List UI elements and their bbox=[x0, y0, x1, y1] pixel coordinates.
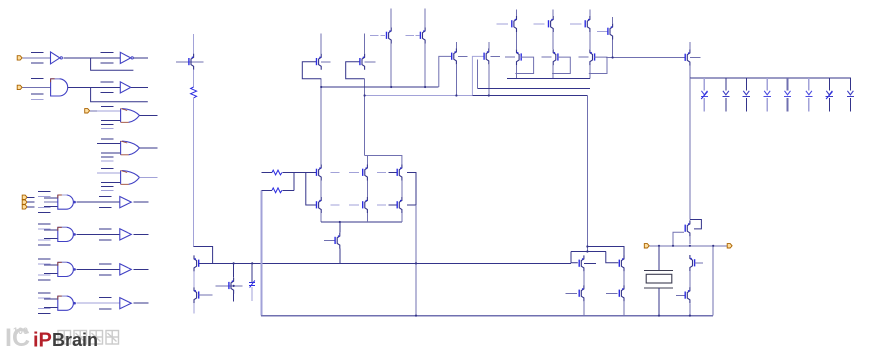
transistor Q19 bbox=[549, 16, 554, 32]
buffer B1 bbox=[120, 197, 132, 208]
wire Q13 source down bbox=[364, 79, 366, 156]
wire diode loop Q24 bbox=[589, 57, 607, 73]
wire diode loop Q22 bbox=[515, 57, 533, 73]
wire drv lower right drop bbox=[606, 252, 619, 263]
wire diff gate tie bbox=[306, 173, 316, 206]
bus stub bbox=[99, 207, 112, 209]
junction bbox=[586, 245, 588, 247]
junction bbox=[233, 262, 235, 264]
wire P3 to OR gate bbox=[90, 110, 97, 112]
wire Q18 drain bbox=[516, 10, 518, 17]
transistor Q4 gate lead bbox=[216, 285, 243, 287]
wire NAND4 to buffer bbox=[77, 302, 120, 304]
wire NAND4 input B bbox=[44, 307, 58, 309]
wire OR3 input A bbox=[97, 172, 121, 174]
bus stub bbox=[101, 92, 114, 94]
wire NAND3 input B bbox=[44, 273, 58, 275]
junction bbox=[233, 285, 235, 287]
wire node vertical bbox=[293, 173, 295, 191]
wire diode loop Q23 bbox=[552, 57, 570, 73]
buffer B2 bbox=[120, 229, 132, 240]
bus stub bbox=[38, 223, 51, 225]
junction bbox=[339, 221, 341, 223]
wire long gate net bbox=[199, 262, 571, 264]
transistor Q27 gate dash bbox=[566, 292, 578, 294]
transistor Q18 bbox=[512, 16, 517, 32]
bus stub bbox=[99, 297, 112, 299]
transistor Q15 bbox=[420, 28, 425, 44]
junction bbox=[712, 245, 714, 247]
wire pin lead bbox=[27, 206, 35, 208]
wire bias C down bbox=[586, 96, 588, 252]
wire Q21 drain bbox=[612, 17, 614, 24]
transistor Q31 bbox=[690, 255, 695, 271]
transistor Q20 bbox=[585, 16, 590, 32]
junction bbox=[586, 250, 588, 252]
buffer U2 bbox=[120, 52, 133, 63]
wire OR1 output bbox=[139, 114, 157, 116]
wire Q7-Q8 bbox=[366, 181, 368, 198]
wire buffer B1 output bbox=[133, 201, 148, 203]
junction bbox=[672, 245, 674, 247]
wire Q2 source bbox=[193, 271, 195, 287]
capacitor load CL3 bbox=[743, 78, 750, 112]
wire to R2 bbox=[262, 189, 273, 191]
inverter U1 bbox=[51, 52, 63, 64]
bus stub bbox=[38, 313, 51, 315]
bus stub bbox=[99, 228, 112, 230]
bus stub bbox=[101, 52, 114, 54]
gate dash bbox=[381, 35, 386, 37]
transistor Q3 gate lead bbox=[199, 294, 213, 296]
transistor Q1 bbox=[189, 54, 194, 70]
watermark iP-Brain logo bbox=[5, 324, 119, 352]
capacitor C1 bbox=[249, 280, 255, 287]
transistor Q7 bbox=[363, 165, 368, 181]
wire Q15 drain bbox=[424, 9, 426, 28]
NAND gate N1 bbox=[58, 195, 76, 209]
wire Q17 source bbox=[488, 64, 490, 95]
bus stub bbox=[38, 196, 51, 198]
wire bias D bbox=[478, 88, 590, 90]
transistor Q5 bbox=[317, 165, 322, 181]
bus stub bbox=[38, 297, 51, 299]
wire NAND1 input M bbox=[44, 201, 58, 203]
bus stub bbox=[99, 239, 112, 241]
wire diff source rail bbox=[321, 221, 402, 223]
wire pin lead bbox=[27, 196, 35, 198]
transistor Q29 gate dash bbox=[606, 292, 618, 294]
transistor Q11 (tail) bbox=[335, 233, 340, 249]
transistor Q3 bbox=[194, 287, 199, 303]
wire Q30 to node bbox=[689, 236, 691, 243]
wire drv lower loop bbox=[571, 251, 606, 253]
wire Q29 source bbox=[623, 301, 625, 315]
wire Q26 source bbox=[583, 271, 585, 285]
gate dash bbox=[570, 23, 581, 25]
wire Q17 drain bbox=[488, 42, 490, 49]
transistor Q22 bbox=[517, 49, 522, 65]
capacitor load CL1 bbox=[701, 78, 708, 112]
crystal Y1 body bbox=[646, 274, 672, 283]
junction bbox=[455, 94, 457, 96]
junction bbox=[658, 245, 660, 247]
wire Q20 source bbox=[589, 32, 591, 49]
bus stub bbox=[38, 207, 51, 209]
wire Q16 gate lead right bbox=[458, 55, 468, 57]
wire NAND1 input A bbox=[44, 197, 58, 199]
wire cap bus bbox=[690, 77, 851, 79]
capacitor load CL4 bbox=[764, 78, 771, 112]
capacitor load CL2 bbox=[722, 78, 729, 112]
wire buffer B3 output bbox=[133, 268, 148, 270]
transistor Q29 bbox=[619, 285, 624, 301]
transistor Q9 gate lead bbox=[389, 172, 397, 174]
wire OR2 input A bbox=[97, 142, 121, 144]
wire Q25 right lead bbox=[690, 57, 701, 59]
wire NAND3 input A bbox=[44, 264, 58, 266]
wire OR1 input A bbox=[97, 110, 121, 112]
wire NAND2 input B bbox=[44, 238, 58, 240]
wire OR3 input B bbox=[101, 181, 121, 183]
node XTAL net bbox=[649, 245, 727, 247]
svg-text:iP: iP bbox=[33, 330, 52, 352]
wire Q23 source bbox=[552, 65, 554, 78]
gate dash bbox=[542, 56, 552, 58]
wire buffer B2 output bbox=[133, 233, 148, 235]
pin XI bbox=[644, 244, 649, 248]
bus stub bbox=[101, 127, 114, 129]
wire vref vertical bbox=[261, 190, 263, 315]
gate dash bbox=[377, 204, 386, 206]
wire XO branch down bbox=[712, 246, 714, 316]
wire NAND4 input A bbox=[44, 298, 58, 300]
bus stub bbox=[38, 292, 51, 294]
wire Q9 drain jog bbox=[365, 156, 402, 165]
capacitor load CL5 bbox=[784, 78, 791, 112]
svg-text:100: 100 bbox=[13, 326, 28, 336]
transistor Q30 bbox=[685, 220, 690, 236]
transistor Q21 bbox=[608, 24, 613, 40]
wire Q21 source bbox=[612, 40, 614, 58]
crystal Y1 bottom plate bbox=[644, 287, 673, 289]
bus stub bbox=[101, 186, 114, 188]
junction bbox=[689, 245, 691, 247]
junction bbox=[390, 86, 392, 88]
wire Q7 drain bbox=[366, 156, 368, 165]
transistor Q17 bbox=[484, 48, 489, 64]
wire tail source bbox=[339, 249, 341, 264]
wire Q1 to R3 bbox=[193, 70, 195, 87]
wire Q20 drain bbox=[589, 10, 591, 17]
wire NAND1 to buffer bbox=[77, 201, 120, 203]
wire bias B bbox=[365, 95, 473, 97]
bus stub bbox=[38, 212, 51, 214]
AND gate U3 bbox=[51, 79, 68, 96]
wire loop Q2 bbox=[194, 247, 213, 264]
gate dash bbox=[349, 172, 359, 174]
wire bias A bbox=[321, 86, 438, 88]
wire OR2 input B bbox=[101, 152, 121, 154]
wire Q25 source bbox=[689, 66, 691, 79]
wire mirror1 loop bbox=[302, 62, 321, 79]
wire gate bias net bbox=[606, 56, 685, 58]
transistor Q32 bbox=[685, 287, 690, 303]
transistor Q8 bbox=[363, 197, 368, 213]
wire Q16 source bbox=[455, 64, 457, 95]
bus stub bbox=[99, 263, 112, 265]
gate dash bbox=[331, 172, 340, 174]
NAND gate N2 bbox=[58, 227, 76, 241]
capacitor load CL7 bbox=[826, 78, 833, 112]
bus stub bbox=[101, 156, 114, 158]
wire U4 output bbox=[131, 86, 148, 88]
bus stub bbox=[31, 93, 44, 95]
wire Q19 source bbox=[552, 32, 554, 49]
transistor Q2 bbox=[194, 255, 199, 271]
wire drv upper loop bbox=[587, 247, 624, 257]
wire Q31 source bbox=[689, 271, 691, 287]
wire P1 to inverter U1 bbox=[23, 57, 51, 59]
wire Q13 drain bbox=[364, 33, 366, 54]
gate dash bbox=[377, 172, 386, 174]
bus stub bbox=[101, 167, 114, 169]
wire Q12 gate lead right bbox=[321, 61, 330, 63]
wire mirror2 loop bbox=[346, 62, 365, 79]
bus stub bbox=[101, 189, 114, 191]
bus stub bbox=[31, 78, 44, 80]
bus stub bbox=[38, 263, 51, 265]
wire Q17 gate lead right bbox=[490, 55, 500, 57]
wire Q4 drain bbox=[233, 263, 235, 277]
wire pin lead bbox=[27, 201, 35, 203]
bus stub bbox=[38, 279, 51, 281]
input pin P5 bbox=[22, 200, 27, 204]
wire output node down bbox=[415, 205, 417, 316]
gate dash bbox=[497, 23, 508, 25]
junction bbox=[320, 86, 322, 88]
transistor Q31 gate lead bbox=[695, 262, 704, 264]
NAND gate N4 bbox=[58, 296, 76, 310]
gate dash bbox=[578, 56, 588, 58]
capacitor C1 top lead bbox=[251, 263, 253, 281]
wire Q6 source bbox=[320, 213, 322, 222]
wire Q5-Q6 bbox=[320, 181, 322, 198]
wire osc column upper bbox=[689, 78, 691, 220]
wire U1 output bbox=[64, 57, 120, 59]
wire Q15 source bbox=[424, 44, 426, 88]
wire Q9-Q10 bbox=[401, 181, 403, 198]
wire buffer B4 output bbox=[133, 302, 148, 304]
wire NAND2 input A bbox=[44, 229, 58, 231]
junction bbox=[689, 315, 691, 317]
bus stub bbox=[38, 239, 51, 241]
wire mirror to Q5 bbox=[320, 79, 322, 165]
capacitor load CL8 bbox=[847, 78, 854, 112]
wire U3 output bbox=[68, 86, 120, 88]
input pin P2 bbox=[17, 85, 22, 89]
buffer B3 bbox=[120, 264, 132, 275]
gate dash bbox=[533, 23, 544, 25]
input pin P4 bbox=[22, 195, 27, 199]
wire Q19 drain bbox=[552, 10, 554, 17]
wire bias A up bbox=[439, 56, 452, 87]
OR gate OR2 bbox=[121, 141, 140, 155]
wire drv lower left drop bbox=[571, 252, 578, 263]
bus stub bbox=[31, 62, 44, 64]
wire Q27 source bbox=[583, 301, 585, 315]
bus stub bbox=[38, 244, 51, 246]
wire OR3 output bbox=[139, 176, 157, 178]
wire branch down row2 bbox=[91, 87, 148, 101]
transistor Q4 bbox=[229, 278, 234, 294]
wire NAND3 to buffer bbox=[77, 268, 120, 270]
wire Q14 source bbox=[390, 44, 392, 88]
transistor Q9 bbox=[397, 165, 402, 181]
input pin P3 bbox=[85, 109, 90, 113]
transistor Q16 bbox=[452, 48, 457, 64]
gate dash bbox=[505, 56, 515, 58]
wire OR1 input B bbox=[101, 119, 121, 121]
wire Q10 source bbox=[401, 213, 403, 222]
input pin P1 bbox=[17, 56, 22, 60]
wire Q16 drain bbox=[455, 42, 457, 49]
resistor R3 bbox=[191, 87, 197, 98]
wire branch down row1 bbox=[91, 58, 134, 70]
bus stub bbox=[101, 62, 114, 64]
bus stub bbox=[31, 98, 44, 100]
bus stub bbox=[99, 308, 112, 310]
wire Q26 gate lead right bbox=[584, 262, 596, 264]
wire Q18 source bbox=[516, 32, 518, 49]
transistor Q13 bbox=[360, 54, 365, 70]
transistor Q26 bbox=[579, 255, 584, 271]
gate dash bbox=[370, 35, 379, 37]
wire Q3 source bbox=[193, 303, 195, 313]
capacitor load CL6 bbox=[805, 78, 812, 112]
bus stub bbox=[101, 160, 114, 162]
wire sources rail bbox=[507, 78, 590, 80]
wire OR2 output bbox=[139, 147, 157, 149]
wire feedback loop bbox=[690, 220, 702, 229]
wire U2 output bbox=[134, 57, 148, 59]
junction bbox=[612, 56, 614, 58]
transistor Q30 gate lead bbox=[673, 232, 684, 246]
crystal Y1 top plate bbox=[644, 269, 673, 271]
transistor Q12 bbox=[317, 54, 322, 70]
wire Q32 source bbox=[689, 303, 691, 315]
NAND gate N3 bbox=[58, 262, 76, 276]
resistor R2 bbox=[272, 188, 282, 193]
capacitor C1 bottom lead bbox=[251, 287, 253, 301]
wire crystal bottom lead bbox=[658, 288, 660, 316]
transistor Q28 bbox=[619, 255, 624, 271]
wire Q12 drain bbox=[320, 33, 322, 54]
wire bias column top bbox=[193, 34, 195, 54]
wire R2 to node bbox=[283, 189, 295, 191]
wire P2 to AND U3 bbox=[23, 86, 51, 88]
wire right gate tie bbox=[407, 173, 416, 206]
wire bias C bbox=[472, 95, 587, 97]
transistor Q24 bbox=[590, 49, 595, 65]
transistor Q11 gate lead bbox=[324, 240, 335, 242]
transistor Q25 bbox=[685, 50, 690, 66]
bus stub bbox=[38, 228, 51, 230]
wire Q22 source bbox=[516, 65, 518, 78]
bus stub bbox=[101, 81, 114, 83]
wire Q25 drain bbox=[689, 42, 691, 50]
bus stub bbox=[101, 138, 114, 140]
gate dash bbox=[416, 35, 420, 37]
wire Q24 source bbox=[589, 65, 591, 78]
OR gate OR1 bbox=[121, 109, 140, 123]
junction bbox=[424, 86, 426, 88]
wire R1 to node bbox=[283, 172, 306, 174]
transistor Q1 gate lead bbox=[176, 61, 203, 63]
bus stub bbox=[31, 52, 44, 54]
junction bbox=[364, 94, 366, 96]
pin XO bbox=[727, 244, 732, 248]
wire crystal top lead bbox=[658, 246, 660, 270]
input pin P6 bbox=[22, 205, 27, 209]
junction bbox=[415, 262, 417, 264]
wire bias B up bbox=[472, 56, 484, 95]
buffer B4 bbox=[120, 298, 132, 309]
transistor Q14 bbox=[387, 28, 392, 44]
transistor Q23 bbox=[553, 49, 558, 65]
wire NAND2 to buffer bbox=[77, 233, 120, 235]
transistor Q27 bbox=[579, 285, 584, 301]
bus stub bbox=[38, 308, 51, 310]
bus stub bbox=[38, 258, 51, 260]
buffer U4 bbox=[120, 82, 130, 93]
wire to R1 bbox=[262, 172, 273, 174]
wire Q8 source bbox=[366, 213, 368, 222]
transistor Q6 bbox=[317, 197, 322, 213]
junction bbox=[488, 94, 490, 96]
bus stub bbox=[101, 124, 114, 126]
bus stub bbox=[101, 105, 114, 107]
junction bbox=[658, 315, 660, 317]
wire ground rail bbox=[261, 315, 713, 317]
transistor Q32 gate lead bbox=[676, 294, 685, 296]
wire NAND1 input B bbox=[44, 205, 58, 207]
junction bbox=[415, 315, 417, 317]
wire Q13 gate lead right bbox=[365, 61, 376, 63]
bus stub bbox=[99, 274, 112, 276]
wire Q14 drain bbox=[390, 9, 392, 28]
OR gate OR3 bbox=[121, 171, 140, 185]
transistor Q10 gate lead bbox=[389, 204, 397, 206]
bus stub bbox=[38, 274, 51, 276]
gate dash bbox=[349, 204, 359, 206]
wire Q4 source bbox=[233, 294, 235, 302]
wire bias column bbox=[193, 98, 195, 247]
gate dash bbox=[331, 204, 340, 206]
gate dash bbox=[597, 31, 608, 33]
transistor Q10 bbox=[397, 197, 402, 213]
bus stub bbox=[38, 191, 51, 193]
gate dash bbox=[406, 35, 415, 37]
bus stub bbox=[99, 196, 112, 198]
svg-text:Brain: Brain bbox=[52, 330, 98, 350]
resistor R1 bbox=[272, 170, 282, 175]
wire Q28 source bbox=[623, 271, 625, 285]
wire bias D left up bbox=[477, 60, 479, 89]
wire tail drain bbox=[339, 222, 341, 233]
junction bbox=[251, 262, 253, 264]
